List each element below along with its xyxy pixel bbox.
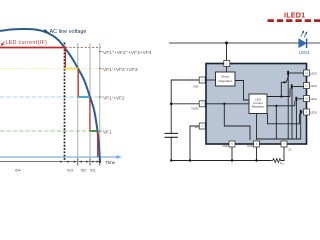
threshold dashed line VF1''+VF2''+VF3+VF4 bbox=[66, 47, 102, 49]
svg-text:AC line voltage: AC line voltage bbox=[50, 29, 87, 35]
wire VIN branch down bbox=[226, 43, 228, 61]
svg-text:VF1’’+VF2’’+VF3+VF4: VF1’’+VF2’’+VF3+VF4 bbox=[103, 50, 152, 55]
wire cap bottom to ground rail bbox=[170, 137, 172, 160]
label dash VF1+VF2 level bbox=[99, 96, 102, 98]
AC line voltage label arrow bbox=[45, 30, 49, 32]
wire Shunt Regulator to VDD pin bbox=[205, 79, 216, 81]
node SHD rail bbox=[255, 159, 257, 161]
grey vertical line at end of ID2 bbox=[89, 43, 91, 161]
internal bottom bus bbox=[257, 138, 302, 140]
black dashed vertical line bbox=[64, 43, 66, 163]
pin box SHD (bottom 2) bbox=[254, 141, 260, 147]
pin box GND (bottom 1) bbox=[229, 141, 235, 147]
pin box LED2 (right 1) bbox=[304, 70, 310, 76]
pin numbers bbox=[202, 63, 309, 145]
svg-text:LED current(IF): LED current(IF) bbox=[6, 40, 48, 46]
interval arrow line ID4 bbox=[0, 161, 63, 163]
wire SHD pin to rail bbox=[256, 147, 258, 161]
wire from LED cathode bbox=[307, 42, 320, 44]
wire Q1 source to bus bbox=[287, 75, 289, 139]
internal wire LED reg output 1 bbox=[267, 96, 290, 98]
svg-text:VDD: VDD bbox=[193, 84, 199, 88]
cyan step segment bbox=[78, 96, 90, 98]
node junction at VIN branch bbox=[225, 42, 228, 45]
threshold dashed line VF1 bbox=[0, 130, 101, 132]
wire VDDA branch to cap wire bbox=[171, 103, 199, 105]
gate riser transistor Q1 bbox=[281, 82, 286, 96]
threshold dashed line VF1'+VF2'+VF3 bbox=[0, 68, 101, 70]
svg-text:LED2: LED2 bbox=[310, 72, 317, 76]
svg-text:ILED1: ILED1 bbox=[284, 10, 305, 19]
svg-text:LED3: LED3 bbox=[310, 84, 317, 88]
svg-text:LED5: LED5 bbox=[310, 111, 317, 115]
svg-text:Time: Time bbox=[106, 160, 116, 165]
pin box LED3 (right 2) bbox=[304, 83, 310, 89]
LED D1 bbox=[299, 39, 307, 48]
internal wire LED reg lower output bbox=[268, 114, 300, 124]
threshold dashed line VF1'+VF2 bbox=[0, 96, 101, 98]
interval arrow ID3 bbox=[66, 161, 77, 163]
node GND rail bbox=[231, 159, 233, 161]
svg-text:Regulator: Regulator bbox=[252, 105, 265, 109]
svg-text:SHD: SHD bbox=[247, 144, 253, 148]
svg-text:LED1: LED1 bbox=[299, 50, 311, 55]
wire Shunt Regulator output bbox=[235, 81, 249, 101]
svg-text:ID2: ID2 bbox=[81, 168, 87, 172]
LED emission arrows bbox=[301, 32, 304, 37]
wire Q4 source to bus bbox=[300, 114, 302, 139]
grey vertical line at end of ID3 bbox=[77, 43, 79, 161]
red dashed current line bbox=[268, 19, 320, 22]
pin box LED4 (right 3) bbox=[304, 96, 310, 102]
svg-text:VF1’+VF2’+VF3: VF1’+VF2’+VF3 bbox=[103, 67, 138, 72]
label dash VF4 level bbox=[99, 51, 102, 53]
wire resistor to CS pin bbox=[281, 147, 284, 161]
LED current IF top red line bbox=[0, 47, 66, 49]
transistor Q2 bbox=[291, 84, 293, 88]
green step segment bbox=[90, 130, 98, 132]
svg-text:ID4: ID4 bbox=[15, 168, 21, 172]
wire Q2 drain to pin LED3 bbox=[293, 86, 304, 88]
AC line voltage curve bbox=[0, 29, 100, 163]
wire GND pin to rail bbox=[231, 147, 233, 161]
transistor Q3 bbox=[295, 97, 297, 101]
svg-text:LED4: LED4 bbox=[310, 97, 317, 101]
red step drop 3 bbox=[89, 97, 91, 131]
wire Q4 drain to pin LED5 bbox=[302, 111, 304, 113]
svg-text:VDDA: VDDA bbox=[191, 107, 199, 111]
pin box VDDA (left) bbox=[199, 101, 205, 107]
label dash VF1 level bbox=[99, 130, 102, 132]
svg-text:ID3: ID3 bbox=[67, 168, 73, 172]
node on output 2 bbox=[275, 105, 277, 107]
pin box EN (left) bbox=[199, 123, 205, 129]
node on output 1 bbox=[280, 95, 282, 97]
pin box VDD (left) bbox=[199, 77, 205, 83]
svg-text:Regulator: Regulator bbox=[218, 79, 231, 83]
Shunt Regulator block bbox=[216, 72, 236, 86]
svg-text:VF1’+VF2: VF1’+VF2 bbox=[103, 95, 125, 100]
svg-text:GND: GND bbox=[222, 144, 228, 148]
LED Current Regulator block bbox=[249, 94, 267, 114]
red step drop 2 bbox=[77, 69, 79, 98]
red step drop 1 bbox=[64, 48, 66, 69]
pin box VIN (top) bbox=[224, 61, 230, 67]
vertical from output 2 to bus bbox=[275, 106, 277, 139]
yellow step segment bbox=[64, 68, 78, 70]
node on VDDA wire bbox=[223, 103, 225, 105]
external cap wire from VDD bbox=[171, 80, 199, 133]
wire Q2 source to bus bbox=[291, 89, 293, 139]
grey vertical line at end of ID1 bbox=[99, 43, 101, 161]
interval arrow ID2 bbox=[79, 161, 89, 163]
ground rail bbox=[171, 160, 271, 162]
node EN to rail bbox=[189, 159, 191, 161]
resistor RCS zigzag bbox=[271, 159, 281, 163]
time axis bbox=[0, 156, 119, 158]
svg-text:CS: CS bbox=[288, 147, 292, 151]
wire VIN pin to Shunt Regulator bbox=[226, 66, 228, 72]
capacitor C1 bbox=[165, 132, 179, 134]
transistor Q4 bbox=[300, 110, 302, 114]
internal wire LED reg output 2 bbox=[267, 105, 295, 107]
wire LED Current Regulator bottom to SHD pin bbox=[256, 114, 258, 140]
gate riser transistor Q3 bbox=[294, 101, 296, 106]
svg-text:ID1: ID1 bbox=[90, 168, 96, 172]
IC body U1 bbox=[206, 64, 307, 145]
wire to LED anode bbox=[169, 42, 299, 44]
wire Q3 drain to pin LED4 bbox=[297, 98, 304, 100]
interval arrow ID1 bbox=[91, 161, 100, 163]
pin box CS (bottom 3) bbox=[281, 141, 287, 147]
wire EN pin to ground rail bbox=[190, 126, 199, 161]
wire branch down and right bbox=[224, 104, 250, 140]
node at cap/VDDA branch bbox=[170, 103, 173, 106]
LED current label arrow bbox=[2, 42, 5, 45]
svg-text:VF1: VF1 bbox=[103, 129, 112, 134]
label dash VF3 level bbox=[99, 68, 102, 70]
node cap to rail bbox=[170, 159, 172, 161]
red step drop 4 bbox=[97, 131, 99, 157]
pin box LED5 (right 4) bbox=[304, 109, 310, 115]
wire Q1 drain to pin LED2 bbox=[289, 72, 304, 74]
transistor Q1 bbox=[287, 71, 289, 75]
wire Q3 source to bus bbox=[295, 101, 297, 139]
gate riser transistor Q2 bbox=[289, 89, 291, 97]
wire VDDA to LED Current Regulator bbox=[205, 103, 249, 105]
svg-text:VIN: VIN bbox=[219, 62, 224, 66]
interval tick marks bbox=[77, 159, 79, 166]
